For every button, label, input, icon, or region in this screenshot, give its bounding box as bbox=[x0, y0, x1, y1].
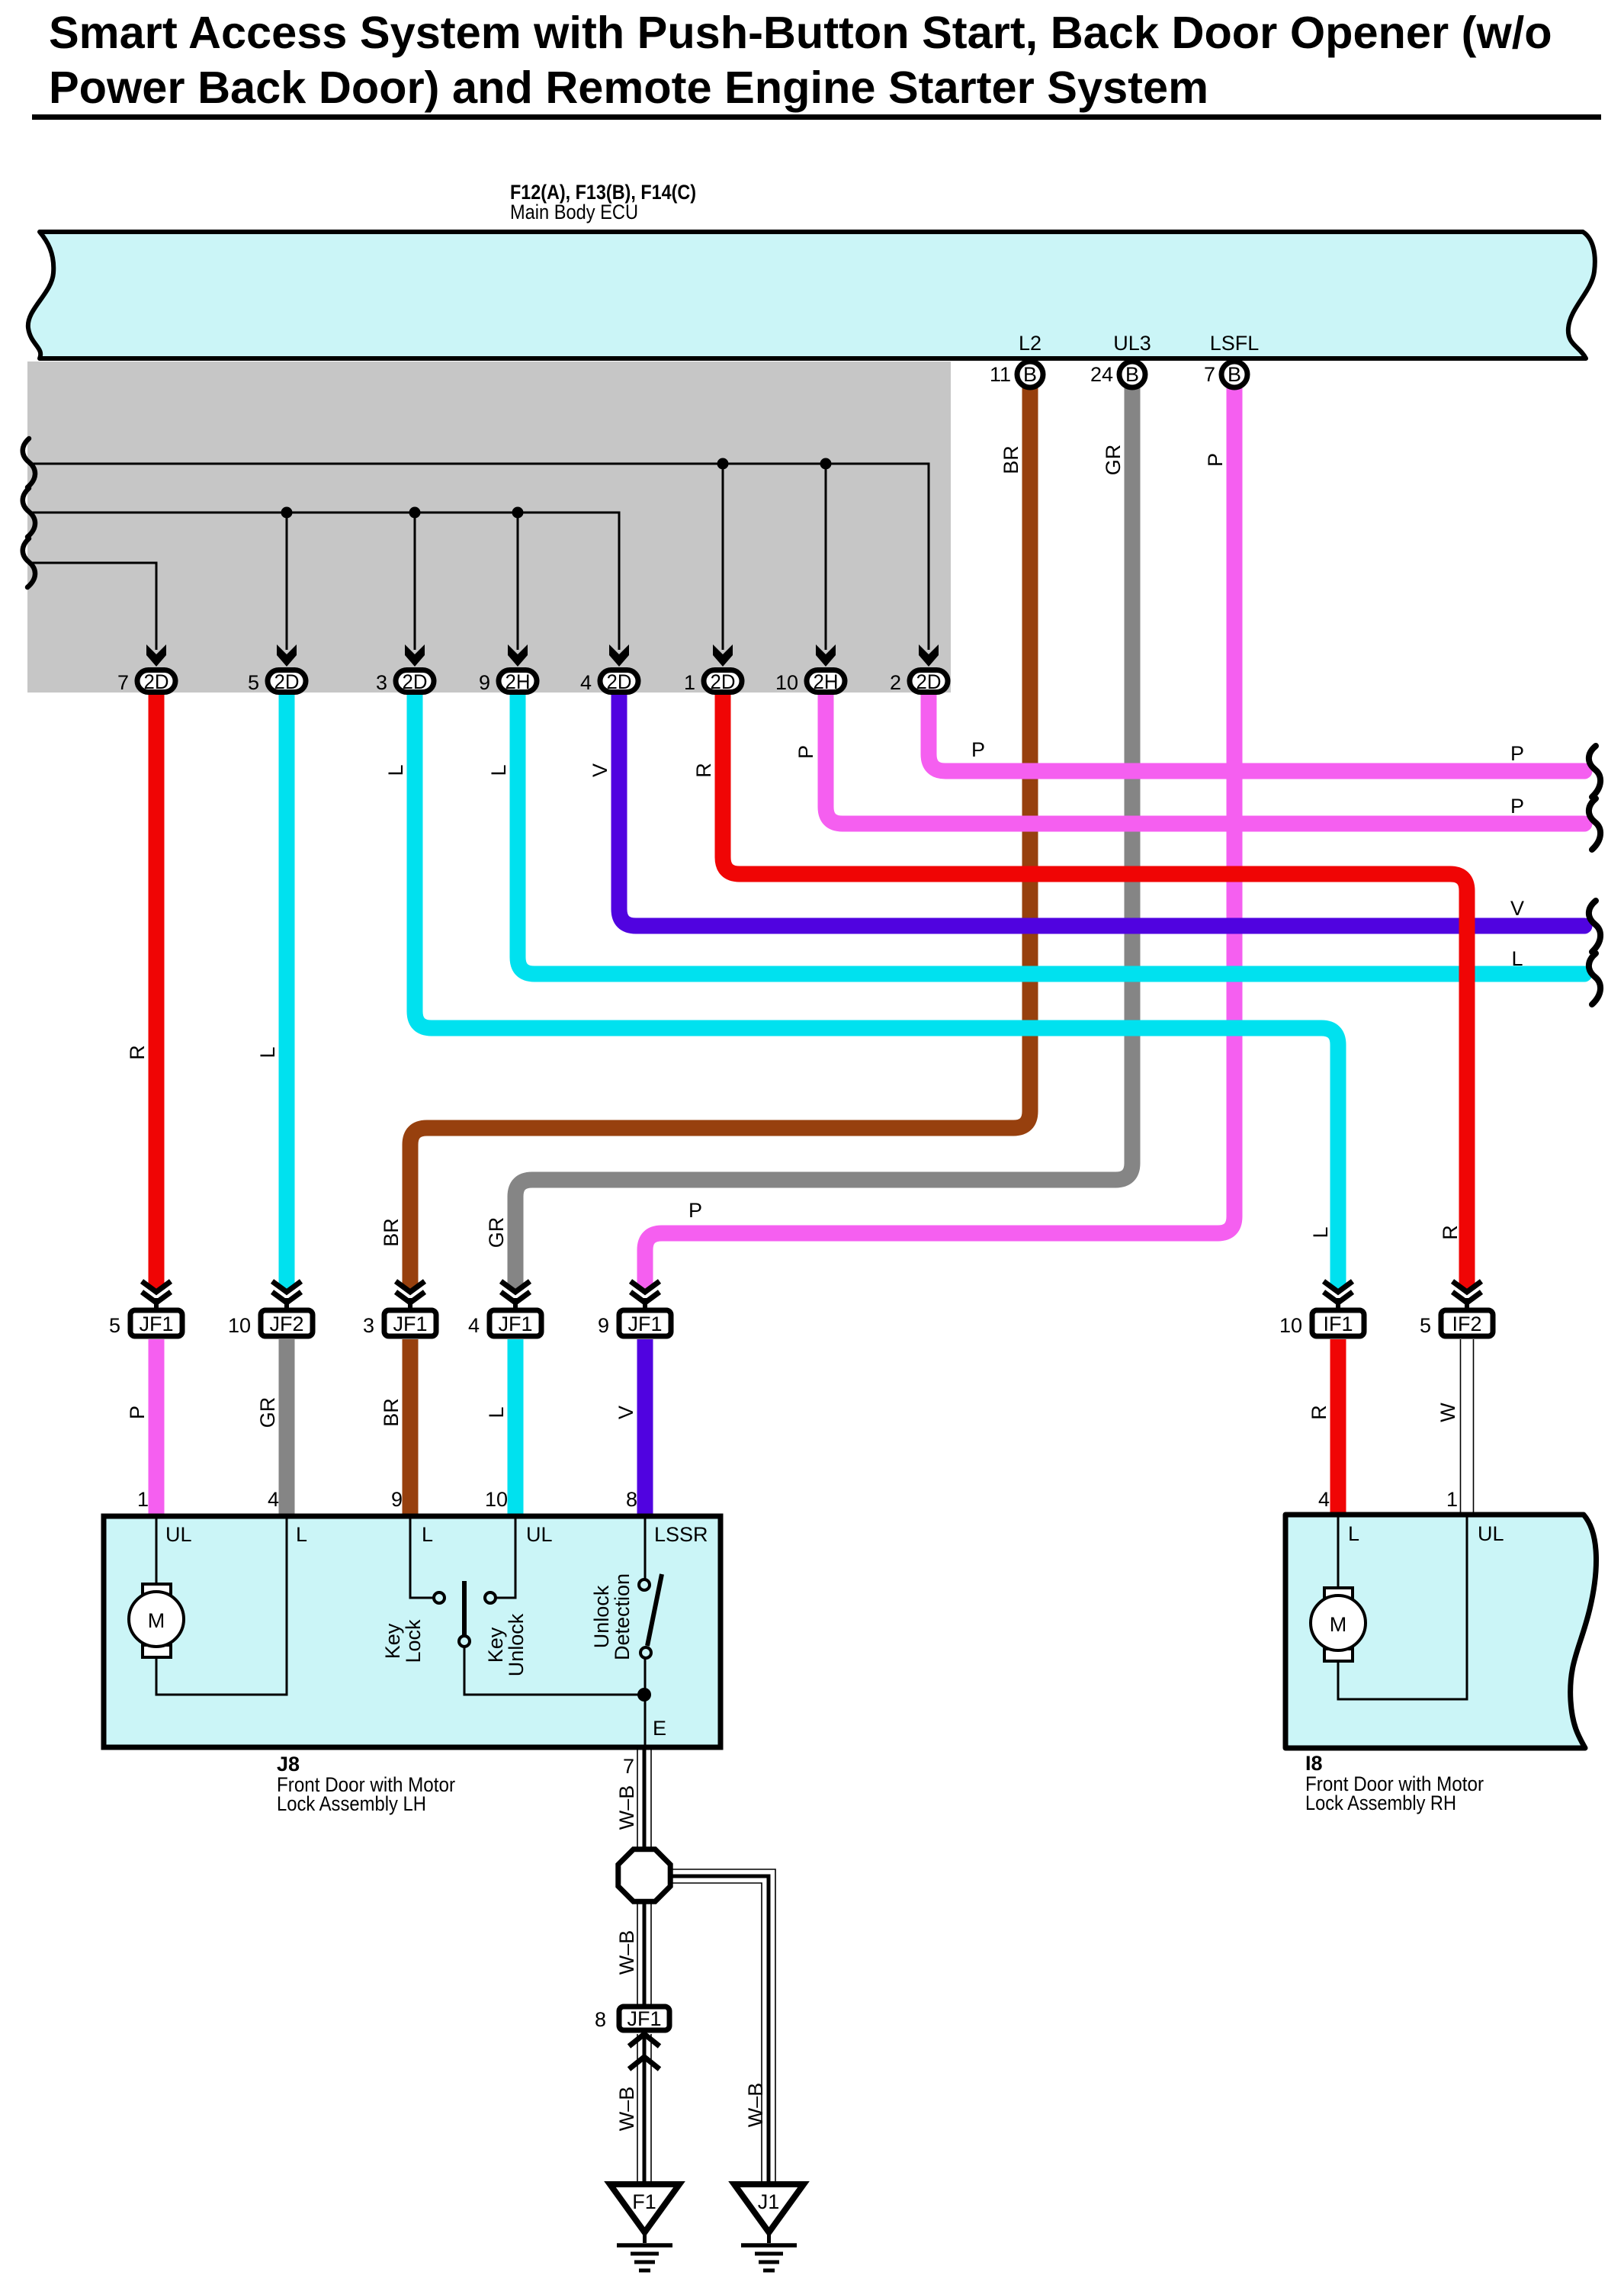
svg-text:9: 9 bbox=[598, 1314, 609, 1337]
svg-text:4: 4 bbox=[580, 671, 592, 694]
svg-text:LSFL: LSFL bbox=[1210, 332, 1260, 355]
svg-text:1: 1 bbox=[684, 671, 695, 694]
svg-text:5: 5 bbox=[248, 671, 259, 694]
svg-text:UL3: UL3 bbox=[1113, 332, 1151, 355]
svg-text:B: B bbox=[1228, 363, 1241, 386]
svg-text:Lock: Lock bbox=[402, 1619, 425, 1663]
svg-text:W–B: W–B bbox=[615, 1785, 638, 1830]
svg-text:10: 10 bbox=[228, 1314, 251, 1337]
svg-text:P: P bbox=[1204, 453, 1227, 467]
svg-text:Detection: Detection bbox=[611, 1573, 634, 1660]
svg-text:2D: 2D bbox=[916, 670, 942, 693]
svg-text:Key: Key bbox=[381, 1623, 404, 1659]
svg-text:W–B: W–B bbox=[615, 1930, 638, 1975]
svg-text:IF2: IF2 bbox=[1452, 1313, 1481, 1335]
svg-text:Unlock: Unlock bbox=[505, 1613, 528, 1676]
svg-text:JF1: JF1 bbox=[498, 1313, 532, 1335]
svg-text:2D: 2D bbox=[403, 670, 428, 693]
svg-text:Lock Assembly LH: Lock Assembly LH bbox=[277, 1792, 426, 1815]
svg-text:M: M bbox=[1330, 1613, 1347, 1636]
svg-text:10: 10 bbox=[1279, 1314, 1302, 1337]
svg-text:7: 7 bbox=[1204, 363, 1215, 386]
svg-text:V: V bbox=[589, 763, 611, 777]
svg-text:L: L bbox=[1511, 947, 1523, 970]
svg-text:JF1: JF1 bbox=[393, 1313, 427, 1335]
svg-text:J8: J8 bbox=[277, 1753, 300, 1775]
svg-text:9: 9 bbox=[479, 671, 490, 694]
svg-text:L: L bbox=[1309, 1226, 1332, 1238]
svg-text:UL: UL bbox=[1478, 1522, 1504, 1545]
svg-text:Smart Access System with Push-: Smart Access System with Push-Button Sta… bbox=[49, 7, 1552, 58]
svg-text:Key: Key bbox=[484, 1627, 507, 1663]
svg-text:I8: I8 bbox=[1305, 1752, 1323, 1775]
svg-text:UL: UL bbox=[526, 1523, 553, 1546]
svg-text:R: R bbox=[126, 1045, 149, 1060]
svg-text:E: E bbox=[653, 1717, 666, 1740]
svg-text:1: 1 bbox=[1446, 1488, 1458, 1511]
svg-text:JF1: JF1 bbox=[627, 2007, 661, 2030]
svg-text:7: 7 bbox=[623, 1755, 634, 1778]
svg-text:L: L bbox=[1348, 1522, 1359, 1545]
svg-text:Lock Assembly RH: Lock Assembly RH bbox=[1305, 1792, 1456, 1814]
svg-text:W–B: W–B bbox=[615, 2087, 638, 2132]
svg-text:1: 1 bbox=[137, 1488, 149, 1511]
svg-text:P: P bbox=[794, 745, 817, 759]
svg-text:BR: BR bbox=[380, 1398, 403, 1427]
svg-text:2D: 2D bbox=[274, 670, 300, 693]
svg-text:2D: 2D bbox=[607, 670, 632, 693]
svg-text:L: L bbox=[485, 1406, 508, 1418]
svg-text:B: B bbox=[1023, 363, 1037, 386]
svg-text:R: R bbox=[692, 763, 715, 778]
svg-text:P: P bbox=[971, 738, 985, 761]
svg-text:GR: GR bbox=[485, 1217, 508, 1248]
svg-text:P: P bbox=[1510, 795, 1524, 818]
svg-text:10: 10 bbox=[775, 671, 798, 694]
svg-text:2H: 2H bbox=[505, 670, 531, 693]
svg-text:3: 3 bbox=[363, 1314, 374, 1337]
svg-text:11: 11 bbox=[990, 363, 1011, 386]
svg-text:2D: 2D bbox=[711, 670, 736, 693]
svg-text:J1: J1 bbox=[758, 2190, 780, 2213]
svg-text:V: V bbox=[1510, 897, 1524, 920]
svg-text:P: P bbox=[126, 1406, 149, 1419]
svg-text:W–B: W–B bbox=[744, 2083, 767, 2128]
svg-text:5: 5 bbox=[109, 1314, 120, 1337]
svg-text:R: R bbox=[1439, 1225, 1462, 1240]
svg-text:Unlock: Unlock bbox=[590, 1585, 613, 1648]
svg-text:LSSR: LSSR bbox=[654, 1523, 708, 1546]
svg-text:P: P bbox=[688, 1199, 702, 1222]
svg-text:4: 4 bbox=[1318, 1488, 1330, 1511]
svg-text:W: W bbox=[1436, 1403, 1459, 1422]
svg-text:R: R bbox=[1308, 1405, 1330, 1420]
svg-text:V: V bbox=[615, 1406, 637, 1419]
svg-text:P: P bbox=[1510, 742, 1524, 765]
svg-text:L: L bbox=[296, 1523, 307, 1546]
svg-text:M: M bbox=[148, 1609, 165, 1632]
svg-text:UL: UL bbox=[165, 1523, 192, 1546]
svg-text:4: 4 bbox=[268, 1488, 279, 1511]
svg-text:L: L bbox=[384, 764, 407, 776]
svg-text:8: 8 bbox=[626, 1488, 637, 1511]
svg-text:10: 10 bbox=[485, 1488, 508, 1511]
svg-text:5: 5 bbox=[1420, 1314, 1431, 1337]
svg-text:JF1: JF1 bbox=[139, 1313, 173, 1335]
svg-text:Main Body ECU: Main Body ECU bbox=[510, 201, 638, 223]
svg-text:Power Back Door) and Remote En: Power Back Door) and Remote Engine Start… bbox=[49, 62, 1208, 113]
svg-text:F1: F1 bbox=[632, 2190, 656, 2213]
svg-text:4: 4 bbox=[468, 1314, 480, 1337]
svg-text:8: 8 bbox=[595, 2008, 606, 2031]
svg-text:7: 7 bbox=[117, 671, 129, 694]
svg-text:24: 24 bbox=[1090, 363, 1113, 386]
svg-text:L: L bbox=[422, 1523, 433, 1546]
svg-text:2: 2 bbox=[890, 671, 901, 694]
svg-text:L: L bbox=[487, 764, 510, 776]
svg-text:GR: GR bbox=[1102, 445, 1125, 476]
svg-text:GR: GR bbox=[256, 1397, 279, 1428]
svg-text:2D: 2D bbox=[144, 670, 169, 693]
svg-text:JF1: JF1 bbox=[627, 1313, 662, 1335]
svg-text:BR: BR bbox=[380, 1218, 403, 1247]
svg-text:9: 9 bbox=[391, 1488, 403, 1511]
svg-text:L: L bbox=[256, 1046, 279, 1058]
svg-text:2H: 2H bbox=[814, 670, 839, 693]
svg-text:B: B bbox=[1125, 363, 1139, 386]
svg-text:BR: BR bbox=[1000, 445, 1022, 474]
svg-text:3: 3 bbox=[376, 671, 387, 694]
svg-text:IF1: IF1 bbox=[1323, 1313, 1353, 1335]
svg-text:JF2: JF2 bbox=[269, 1313, 303, 1335]
svg-text:L2: L2 bbox=[1019, 332, 1041, 355]
